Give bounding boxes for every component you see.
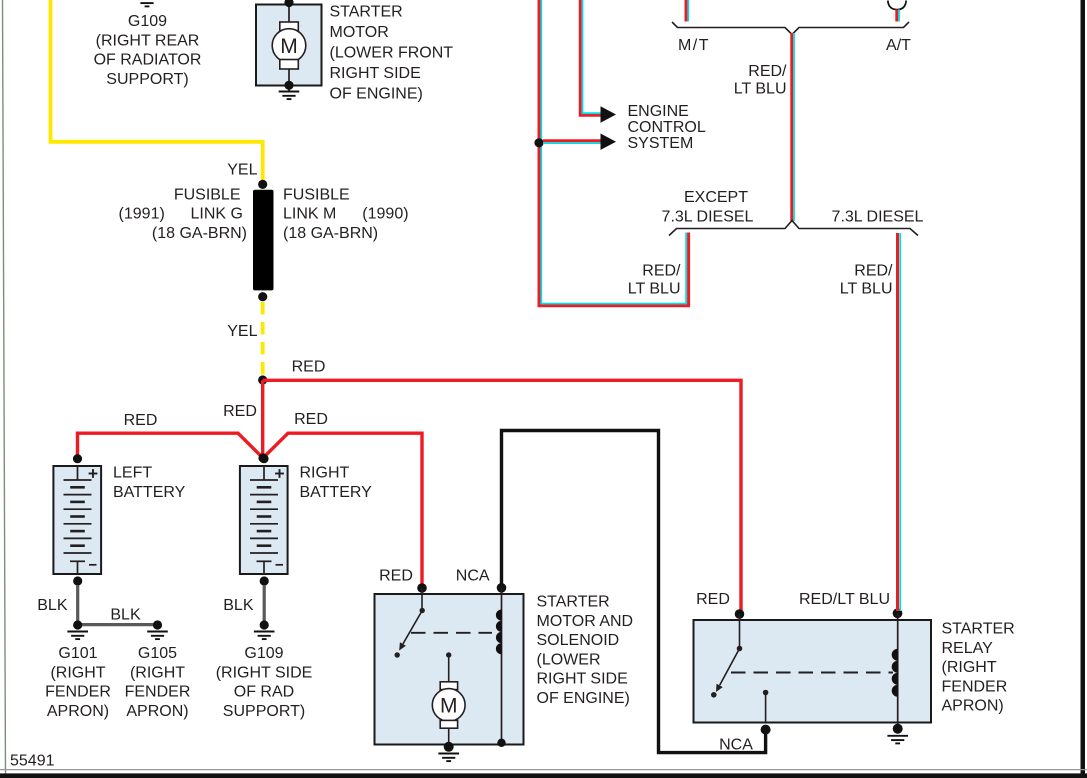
svg-text:MOTOR: MOTOR [330, 24, 389, 41]
svg-text:(RIGHT: (RIGHT [50, 664, 105, 681]
node: ECS tap junction [534, 138, 543, 147]
svg-text:YEL: YEL [227, 323, 257, 340]
svg-text:G109: G109 [244, 645, 283, 662]
node: battery V junction [258, 453, 267, 462]
svg-text:(RIGHT REAR: (RIGHT REAR [96, 32, 200, 49]
motor M (solenoid box) [432, 682, 465, 747]
svg-text:(1990): (1990) [362, 206, 408, 223]
svg-text:RELAY: RELAY [942, 640, 994, 657]
node: relay NCA terminal [761, 725, 771, 735]
svg-text:RED: RED [223, 403, 257, 420]
svg-text:LINK M: LINK M [283, 206, 336, 223]
svg-text:(1991): (1991) [119, 206, 165, 223]
svg-text:A/T: A/T [886, 37, 911, 54]
svg-text:G101: G101 [58, 645, 97, 662]
wire NCA (black): solenoid to relay contact [502, 431, 766, 753]
bottom thin rule [0, 769, 1087, 771]
label STARTER MOTOR (LOWER FRONT RIGHT SIDE OF ENGINE) [330, 4, 454, 103]
node: solenoid RED terminal [417, 583, 427, 593]
wire RED/LT BLU W6: diesel drop to relay coil [898, 233, 901, 611]
svg-text:CONTROL: CONTROL [628, 119, 706, 136]
svg-text:RIGHT SIDE: RIGHT SIDE [537, 671, 628, 688]
starter relay box [694, 620, 932, 723]
in-line connector (A/T wire) [888, 1, 906, 10]
svg-text:FENDER: FENDER [45, 684, 111, 701]
starter motor M1 (top) [256, 0, 322, 91]
label RED/ LT BLU (right drop) [840, 263, 893, 298]
svg-text:YEL: YEL [227, 162, 257, 179]
svg-text:(RIGHT: (RIGHT [942, 659, 997, 676]
solenoid coil [496, 588, 502, 743]
svg-text:RED/: RED/ [642, 263, 681, 280]
solenoid plunger tap [446, 652, 451, 682]
svg-text:APRON): APRON) [126, 703, 188, 720]
wire RED/LT BLU W2: upper ECS branch [580, 0, 601, 115]
svg-text:NCA: NCA [719, 737, 753, 754]
svg-text:RED/: RED/ [748, 63, 787, 80]
svg-text:STARTER: STARTER [537, 594, 610, 611]
relay switch [711, 614, 742, 698]
yellow wire [51, 0, 263, 184]
svg-text:BLK: BLK [37, 597, 68, 614]
ground G105 [147, 632, 168, 640]
svg-text:APRON): APRON) [942, 698, 1004, 715]
ground G109 top (partial symbol) [137, 0, 158, 6]
svg-text:OF RADIATOR: OF RADIATOR [94, 52, 202, 69]
wire RED/LT BLU W3: merged trunk [792, 33, 794, 221]
wire RED: V node to starter solenoid [263, 433, 422, 586]
svg-text:FUSIBLE: FUSIBLE [174, 186, 241, 203]
label ENGINE CONTROL SYSTEM [628, 103, 706, 152]
svg-text:(RIGHT: (RIGHT [130, 664, 185, 681]
left battery [53, 454, 101, 586]
node: coil bottom [497, 739, 505, 747]
label G109 (RIGHT REAR OF RADIATOR SUPPORT) [94, 13, 202, 88]
label G105 (RIGHT FENDER APRON) [125, 645, 191, 720]
svg-text:STARTER: STARTER [942, 621, 1015, 638]
svg-text:OF ENGINE): OF ENGINE) [537, 690, 630, 707]
node: relay coil ground terminal [893, 724, 903, 734]
node: red distribution junction [258, 375, 267, 384]
node: solenoid NCA terminal [497, 583, 507, 593]
svg-text:LT BLU: LT BLU [734, 80, 787, 97]
node G101 [73, 620, 82, 629]
node: fusible link top [258, 180, 267, 189]
svg-text:(LOWER: (LOWER [537, 651, 601, 668]
svg-text:BATTERY: BATTERY [113, 484, 186, 501]
svg-text:M: M [440, 695, 458, 718]
svg-text:(RIGHT SIDE: (RIGHT SIDE [216, 664, 313, 681]
svg-text:M/T: M/T [678, 37, 710, 54]
label FUSIBLE LINK M (1990) (18 GA-BRN) [283, 186, 409, 242]
wire RED/LT BLU: ECS tap arrow lead [543, 141, 601, 143]
svg-text:STARTER: STARTER [330, 4, 403, 21]
left page border [3, 0, 6, 778]
ground below relay [887, 736, 908, 744]
node: relay RED terminal [735, 609, 745, 619]
relay actuating dashed link [731, 672, 893, 674]
label RED/ LT BLU (trunk) [734, 63, 787, 97]
label LEFT BATTERY [113, 465, 186, 501]
wire BLK: left battery to G101 [76, 585, 79, 621]
svg-text:APRON): APRON) [47, 703, 109, 720]
svg-text:RED: RED [379, 568, 413, 585]
svg-text:55491: 55491 [10, 753, 55, 770]
svg-text:RED/LT BLU: RED/LT BLU [799, 591, 890, 608]
svg-text:7.3L DIESEL: 7.3L DIESEL [832, 208, 924, 225]
arrow to engine control system (upper) [601, 106, 617, 122]
wire RED/LT BLU W5: A/T branch [897, 10, 899, 22]
label STARTER MOTOR AND SOLENOID (LOWER RIGHT SIDE OF ENGINE) [537, 594, 634, 708]
svg-text:RIGHT SIDE: RIGHT SIDE [330, 65, 421, 82]
svg-text:RED: RED [696, 591, 730, 608]
svg-text:FENDER: FENDER [125, 684, 191, 701]
svg-text:RIGHT: RIGHT [300, 465, 350, 482]
svg-text:(LOWER FRONT: (LOWER FRONT [330, 45, 454, 62]
label G101 (RIGHT FENDER APRON) [45, 645, 111, 720]
brace: diesel/non-diesel split [669, 221, 918, 236]
svg-text:M: M [280, 35, 298, 58]
node G109 [260, 620, 269, 629]
wire BLK: right battery to G109 [263, 585, 266, 621]
solenoid actuating dashed link [411, 632, 492, 634]
node: fusible link bottom [258, 292, 267, 301]
solenoid switch [395, 588, 425, 658]
svg-text:BLK: BLK [110, 607, 141, 624]
svg-text:RED/: RED/ [854, 263, 893, 280]
wire RED: junction down to battery V node [261, 380, 264, 456]
svg-text:SYSTEM: SYSTEM [628, 135, 694, 152]
svg-text:G105: G105 [138, 645, 177, 662]
svg-text:SUPPORT): SUPPORT) [106, 71, 188, 88]
svg-text:7.3L DIESEL: 7.3L DIESEL [662, 208, 754, 225]
wire RED/LT BLU W1: engine control feed (U-path) [539, 0, 689, 306]
label STARTER RELAY (RIGHT FENDER APRON) [942, 621, 1015, 715]
bottom page border [0, 773, 1087, 778]
wire RED: junction to starter relay [263, 380, 741, 612]
label EXCEPT 7.3L DIESEL [662, 189, 754, 225]
wire BLK: G101 to G105 [78, 623, 158, 626]
label G109 (RIGHT SIDE OF RAD SUPPORT) [216, 645, 313, 720]
fusible link bar [253, 190, 274, 291]
right battery [240, 454, 288, 586]
svg-text:RED: RED [124, 412, 158, 429]
svg-text:RED: RED [294, 411, 328, 428]
svg-text:LT BLU: LT BLU [628, 281, 681, 298]
svg-text:FUSIBLE: FUSIBLE [283, 186, 350, 203]
relay coil [892, 613, 898, 728]
svg-text:OF RAD: OF RAD [234, 684, 294, 701]
label RED/ LT BLU (left drop) [628, 263, 681, 298]
svg-text:RED: RED [292, 358, 326, 375]
wire RED: V node to left battery [78, 433, 264, 458]
label RIGHT BATTERY [300, 465, 373, 501]
svg-text:SOLENOID: SOLENOID [537, 632, 620, 649]
svg-text:(18 GA-BRN): (18 GA-BRN) [283, 225, 378, 242]
right page border [1081, 0, 1086, 778]
svg-text:EXCEPT: EXCEPT [684, 189, 748, 206]
svg-text:MOTOR AND: MOTOR AND [537, 613, 634, 630]
ground G101 [67, 632, 88, 640]
node: motor ground [444, 742, 454, 752]
svg-text:G109: G109 [128, 13, 167, 30]
ground below solenoid box [438, 754, 459, 762]
relay output contact [763, 690, 769, 723]
node: relay coil terminal [893, 608, 903, 618]
node G105 [153, 620, 162, 629]
svg-text:NCA: NCA [456, 568, 490, 585]
label FUSIBLE LINK G (1991) (18 GA-BRN) [119, 186, 247, 242]
yellow dashed wire [261, 302, 265, 378]
svg-text:BATTERY: BATTERY [300, 484, 373, 501]
svg-text:(18 GA-BRN): (18 GA-BRN) [152, 225, 247, 242]
wire RED/LT BLU W4: M/T branch [686, 0, 688, 22]
ground below starter motor [279, 92, 300, 100]
arrow to engine control system (lower) [601, 134, 617, 150]
svg-text:BLK: BLK [223, 597, 254, 614]
brace: M/T and A/T merge [672, 22, 909, 35]
starter motor and solenoid box [375, 594, 524, 745]
svg-text:LT BLU: LT BLU [840, 281, 893, 298]
svg-text:OF ENGINE): OF ENGINE) [330, 86, 423, 103]
svg-text:LINK G: LINK G [191, 206, 243, 223]
svg-text:SUPPORT): SUPPORT) [223, 703, 305, 720]
ground G109 [254, 632, 275, 640]
svg-text:FENDER: FENDER [942, 678, 1008, 695]
svg-text:LEFT: LEFT [113, 465, 152, 482]
svg-text:ENGINE: ENGINE [628, 103, 689, 120]
